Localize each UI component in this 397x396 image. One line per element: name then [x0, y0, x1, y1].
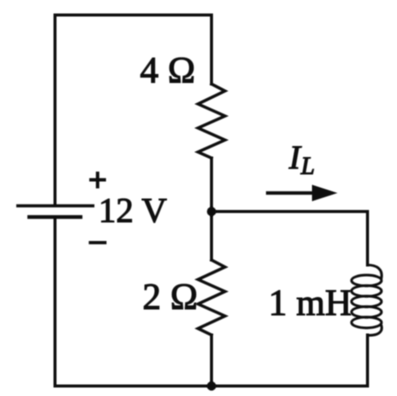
- inductor L1 coil loops: [352, 275, 382, 286]
- battery V1 plate long: [18, 204, 93, 207]
- battery plus sign: [89, 172, 106, 189]
- wire bottom: [55, 385, 368, 388]
- inductor L1 bottom arc: [368, 326, 382, 335]
- svg-text:12 V: 12 V: [99, 191, 167, 230]
- bottom node junction dot: [207, 381, 216, 390]
- wire middle (4-ohm to node A, node A to 2-ohm): [210, 158, 213, 260]
- battery minus sign: [89, 241, 107, 244]
- inductor L1 top arc: [368, 265, 382, 278]
- node A junction dot: [207, 207, 216, 216]
- wire right top: [366, 212, 369, 266]
- wire top-left loop: left side + top side: [55, 15, 212, 205]
- svg-text:4 Ω: 4 Ω: [140, 51, 195, 92]
- resistor R1 4 ohm: [198, 84, 225, 158]
- wire middle top (node to 4-ohm): [210, 15, 213, 84]
- resistor R2 2 ohm: [198, 260, 225, 335]
- svg-text:2 Ω: 2 Ω: [143, 277, 198, 318]
- svg-text:1 mH: 1 mH: [269, 283, 352, 324]
- wire node A to right: [212, 210, 368, 213]
- current arrow IL: [266, 191, 316, 195]
- wire left side below battery: [54, 218, 57, 386]
- battery V1 plate short: [29, 215, 80, 219]
- wire middle bottom: [210, 335, 213, 386]
- svg-text:IL: IL: [288, 140, 315, 181]
- wire right bottom: [366, 335, 369, 386]
